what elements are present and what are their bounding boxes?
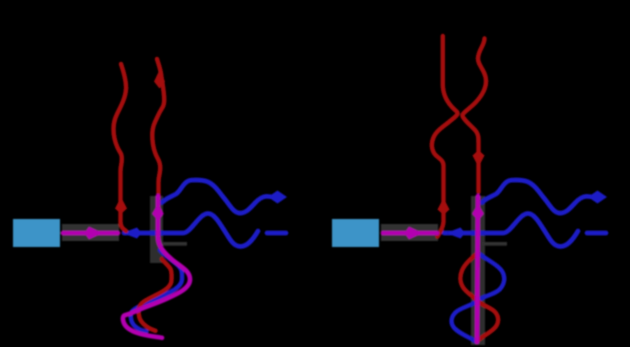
crack block (left cyan rectangle) (13, 219, 60, 247)
red chain A (right, top-left, hooks and returns to left leg with up arrow) (432, 36, 458, 237)
blue lower chain arrowhead pointing left (right) (446, 228, 465, 239)
blue entangled loop strand (right) (452, 253, 505, 341)
red tail strand in lower squiggle (left) (139, 259, 172, 331)
gray ghost line right of junction (right) (482, 242, 507, 246)
gray ghost band behind horizontal magenta arrow (right) (381, 224, 438, 241)
gray ghost band behind vertical magenta line (right) (471, 196, 485, 345)
magenta vertical chain through junction into tail (left) (123, 196, 190, 338)
red chain B down arrowhead on right leg (473, 150, 485, 167)
red chain 2 up arrowhead (left) (154, 70, 165, 89)
magenta horizontal arrowhead pointing right (left) (85, 227, 103, 239)
blue lower chain arrowhead pointing left (left) (123, 228, 142, 239)
gray ghost line right of junction (left) (162, 242, 187, 246)
red chain A up arrowhead on left leg (438, 198, 450, 215)
blue upper chain wave (left) (162, 180, 272, 213)
blue upper chain diamond arrow (right) (588, 191, 607, 204)
magenta horizontal arrowhead pointing right (right) (405, 227, 423, 239)
magenta chain horizontal arrow from block (left) (63, 231, 118, 236)
magenta up arrowhead at junction (left) (152, 204, 164, 221)
red entangled loop strand (right) (460, 253, 498, 341)
blue lower chain with left arrowhead (right) (444, 214, 578, 247)
crack block (right cyan rectangle) (332, 219, 379, 247)
blue lower chain dash end (right) (587, 231, 606, 236)
blue upper chain diamond arrow (left) (268, 191, 287, 204)
magenta straight vertical chain (right) (477, 196, 478, 342)
gray ghost band behind vertical magenta line (left) (150, 196, 163, 263)
red chain 1 (left, vertical wavy) (114, 64, 127, 231)
red chain 1 up arrowhead (left) (115, 197, 127, 214)
red chain B (right, top-right, hooks and returns to right leg) (462, 39, 486, 193)
blue tail strand in lower squiggle (left) (131, 250, 182, 332)
red chain 2 (left, vertical wavy) (152, 59, 164, 196)
blue lower chain with left arrowhead (left) (124, 214, 258, 247)
gray ghost band behind horizontal magenta arrow (left) (62, 224, 119, 241)
blue upper chain wave (right) (482, 180, 592, 213)
blue lower chain dash end (left) (267, 231, 286, 236)
magenta up arrowhead at junction (right) (472, 204, 484, 221)
magenta chain horizontal arrow from block (right) (383, 231, 437, 236)
